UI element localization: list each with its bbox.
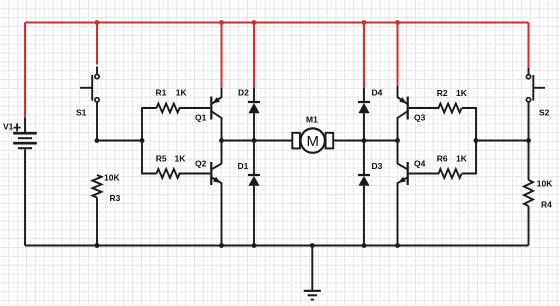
svg-text:1K: 1K xyxy=(456,153,468,163)
svg-text:D4: D4 xyxy=(372,88,383,98)
svg-text:Q2: Q2 xyxy=(195,159,207,169)
wire: S1 node to R1/R5 link xyxy=(97,140,142,142)
wire: red drop from rail to diode D2 xyxy=(253,23,255,88)
resistor R4 10K xyxy=(524,141,533,246)
node: rail junction at S1 column xyxy=(95,20,100,25)
svg-text:D1: D1 xyxy=(238,161,249,171)
node: Q1/Q2 output node xyxy=(219,138,224,143)
resistor R3 10K xyxy=(93,175,102,246)
wire: mid rail left (Q1/Q2 node to motor) xyxy=(222,140,293,142)
wire: R2/R6 right link vertical xyxy=(462,108,476,174)
svg-text:10K: 10K xyxy=(104,173,120,183)
wire: red drop from rail to Q1 emitter xyxy=(221,23,223,89)
svg-text:D3: D3 xyxy=(372,161,383,171)
svg-text:R6: R6 xyxy=(437,153,448,163)
svg-text:1K: 1K xyxy=(176,88,188,98)
node: Q3/Q4 output node xyxy=(395,138,400,143)
resistor R6 1K xyxy=(409,169,462,178)
svg-text:S1: S1 xyxy=(76,108,87,118)
svg-text:10K: 10K xyxy=(537,179,553,189)
transistor Q2 (NPN) xyxy=(211,141,221,246)
wire: red drop from rail to switch S1 xyxy=(96,23,98,65)
node: junction at R1/R5 link xyxy=(140,138,145,143)
resistor R2 1K xyxy=(409,104,462,113)
transistor Q4 (NPN) xyxy=(398,141,408,246)
wire: mid rail right (motor to Q3/Q4 node) xyxy=(333,140,397,142)
resistor R1 1K xyxy=(157,104,211,113)
svg-text:1K: 1K xyxy=(175,154,187,164)
svg-text:Q3: Q3 xyxy=(414,112,426,122)
node: bottom junction at ground stub xyxy=(310,243,315,248)
wire: R2/R6 link to S2 column xyxy=(476,140,529,142)
transistor Q1 (PNP) xyxy=(211,88,221,141)
diode D4 xyxy=(358,88,370,141)
svg-text:S2: S2 xyxy=(539,108,550,118)
svg-text:Q4: Q4 xyxy=(414,159,426,169)
node: rail junction at Q3 column xyxy=(395,20,400,25)
node: bottom junction at Q4 emitter xyxy=(395,243,400,248)
svg-text:1K: 1K xyxy=(456,88,468,98)
wire: ground bottom rail xyxy=(25,245,529,247)
node: rail junction at D2 column xyxy=(252,20,257,25)
ground xyxy=(304,246,321,300)
node: bottom junction at Q2 emitter xyxy=(219,243,224,248)
node: junction at S2/R4 column mid rail xyxy=(526,138,531,143)
node: D1/D2 mid junction xyxy=(252,138,257,143)
svg-text:R3: R3 xyxy=(110,193,121,203)
node: rail junction at Q1 column xyxy=(219,20,224,25)
node: bottom junction at D3 xyxy=(362,243,367,248)
battery V1 xyxy=(13,118,37,148)
diode D3 xyxy=(358,141,370,246)
svg-text:M: M xyxy=(307,133,320,150)
wire: red drop from rail to battery V1 xyxy=(24,23,26,119)
switch S2 (pushbutton) xyxy=(526,68,545,141)
svg-text:R4: R4 xyxy=(541,200,552,210)
node: D3/D4 mid junction xyxy=(362,138,367,143)
svg-text:D2: D2 xyxy=(238,88,249,98)
node: junction at R2/R6 link xyxy=(474,138,479,143)
svg-text:V1: V1 xyxy=(3,122,14,132)
resistor R5 1K xyxy=(157,169,211,178)
wire: red drop from rail to diode D4 xyxy=(363,23,365,89)
diode D2 xyxy=(248,88,260,141)
node: rail junction at D4 column xyxy=(362,20,367,25)
svg-text:M1: M1 xyxy=(306,115,318,125)
wire: +V top rail (red) xyxy=(25,22,529,24)
wire: battery negative to bottom rail xyxy=(24,149,26,245)
node: bottom junction at D1 xyxy=(252,243,257,248)
wire: R1/R5 left link vertical xyxy=(142,108,157,174)
node: junction at S1/R3 column mid rail xyxy=(95,138,100,143)
svg-text:R5: R5 xyxy=(156,154,167,164)
wire: red drop from rail to Q3 emitter xyxy=(397,23,399,87)
transistor Q3 (PNP) xyxy=(398,86,408,141)
node: bottom junction at R3 column xyxy=(95,243,100,248)
wire: red drop from rail to switch S2 xyxy=(528,23,530,69)
svg-text:Q1: Q1 xyxy=(195,112,207,122)
switch S1 (pushbutton) xyxy=(80,67,99,141)
diode D1 xyxy=(248,141,260,246)
svg-text:R2: R2 xyxy=(437,88,448,98)
motor M1 xyxy=(292,128,333,152)
svg-text:R1: R1 xyxy=(156,88,167,98)
